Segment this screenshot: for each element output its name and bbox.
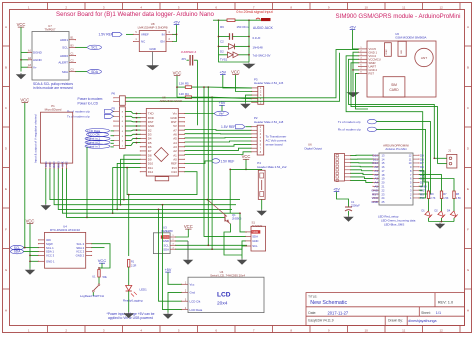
wire +5V to P3 pin1 <box>223 75 252 88</box>
svg-text:J1: J1 <box>448 148 451 152</box>
wire Q1 emitter down <box>224 224 242 255</box>
wire SDA <box>76 71 88 73</box>
svg-text:1.5K: 1.5K <box>443 197 448 200</box>
ground (BME280) <box>184 259 192 265</box>
net flag Vin* <box>185 113 215 115</box>
ground (TMP007) <box>17 73 25 79</box>
svg-text:0 to 20mA signal input: 0 to 20mA signal input <box>236 10 272 14</box>
svg-text:VCC: VCC <box>20 98 29 103</box>
svg-text:1/1: 1/1 <box>436 311 441 315</box>
wire AM2320 vdd vertical <box>240 213 247 232</box>
svg-text:P5: P5 <box>112 107 116 111</box>
wire right branch down <box>248 20 250 62</box>
resistor R7 1.5K <box>440 191 442 199</box>
svg-text:GND 1: GND 1 <box>46 260 55 264</box>
resistor R8 1.5K <box>453 191 455 199</box>
svg-text:TITLE:: TITLE: <box>308 294 317 298</box>
wire jumper right <box>194 59 198 61</box>
svg-text:LED-Blue_SMS: LED-Blue_SMS <box>384 223 404 227</box>
diode D2 1N4148 <box>229 44 235 50</box>
resistor R1 2.2R <box>128 260 130 268</box>
svg-text:ALERT: ALERT <box>58 61 68 65</box>
wire +5V to VCC5 <box>353 30 359 49</box>
net flag SDA (RTC) <box>11 249 24 254</box>
svg-text:Vin*: Vin* <box>219 112 225 116</box>
ground (C1) <box>345 216 353 222</box>
svg-text:Tx of modem o/p: Tx of modem o/p <box>338 120 361 124</box>
svg-text:Q1: Q1 <box>232 213 236 217</box>
svg-text:11: 11 <box>402 328 405 332</box>
svg-text:MISO: MISO <box>52 162 56 169</box>
svg-text:SCL: SCL <box>91 46 98 50</box>
wire bus D11 net <box>113 168 141 214</box>
svg-text:+5V: +5V <box>219 71 226 75</box>
net flag SCL <box>88 45 102 50</box>
ground (LCD) <box>164 313 172 319</box>
net flag SCL (RTC) <box>11 245 24 250</box>
wire VCC to BME <box>176 229 189 237</box>
wire modem VCCMCU <box>349 59 435 158</box>
wire bus D8 net <box>124 155 140 200</box>
svg-text:RTC-DS3231 AT24C32: RTC-DS3231 AT24C32 <box>50 228 80 232</box>
svg-text:ANT: ANT <box>421 56 427 60</box>
svg-text:P6: P6 <box>112 92 116 96</box>
svg-text:12K R4: 12K R4 <box>179 92 189 96</box>
svg-text:Power to LCD: Power to LCD <box>78 102 99 106</box>
net flag Digital in 1 <box>85 136 110 140</box>
LED LED1 <box>126 286 132 291</box>
svg-text:GND: GND <box>149 47 155 51</box>
svg-text:VCC 3: VCC 3 <box>46 254 55 258</box>
svg-text:50k: 50k <box>103 275 108 279</box>
svg-text:1.5K: 1.5K <box>456 197 461 200</box>
svg-text:TX: TX <box>420 196 424 200</box>
ground (RTC) <box>26 269 34 275</box>
svg-text:B: B <box>5 66 7 70</box>
svg-text:in this module are removed: in this module are removed <box>33 86 73 90</box>
svg-text:Input & output of V regulator: Input & output of V regulator shorted <box>34 114 38 163</box>
wires AM2320 SDA <box>204 134 246 237</box>
svg-text:D2: D2 <box>220 50 224 54</box>
wires LED resistors to ProMini <box>419 171 429 191</box>
svg-text:SIM: SIM <box>391 83 397 87</box>
svg-text:F: F <box>5 228 7 232</box>
svg-text:Header Male 2.54_2x2: Header Male 2.54_2x2 <box>257 165 287 169</box>
wire LED commons <box>429 221 455 223</box>
svg-text:B: B <box>467 66 469 70</box>
svg-text:SCK: SCK <box>60 161 64 167</box>
wire Q1 collector from rail <box>229 169 231 213</box>
wires J1 <box>434 157 447 159</box>
svg-text:VCC: VCC <box>98 258 107 263</box>
Nano polygon marker <box>154 148 168 162</box>
wire VCC stem to P4 rail <box>245 160 247 170</box>
svg-text:CARD: CARD <box>389 88 399 92</box>
svg-text:LCD Clk: LCD Clk <box>190 299 201 303</box>
svg-text:20x4: 20x4 <box>217 300 228 306</box>
svg-text:11: 11 <box>402 5 405 9</box>
svg-text:A: A <box>467 25 469 29</box>
svg-text:ARDUINO NANO: ARDUINO NANO <box>160 99 183 103</box>
svg-text:AUDIO JACK: AUDIO JACK <box>253 26 274 30</box>
ground (P4) <box>258 210 266 216</box>
svg-text:AGND: AGND <box>33 58 43 62</box>
svg-text:EasyEDA V4.11.9: EasyEDA V4.11.9 <box>308 319 333 323</box>
wire LCD Data net <box>163 205 182 310</box>
wire R4 net to P3 <box>212 97 252 99</box>
svg-text:12K R5: 12K R5 <box>179 81 189 85</box>
svg-text:+5V: +5V <box>165 268 172 272</box>
wire bus digital horizontals <box>124 199 240 201</box>
switch LogRead SWITCH <box>98 277 100 284</box>
svg-text:1.5V REF: 1.5V REF <box>99 33 113 37</box>
svg-text:DGND: DGND <box>33 51 43 55</box>
svg-text:GSM MODEM SIM900A: GSM MODEM SIM900A <box>395 35 426 39</box>
svg-text:JUMPER-3: JUMPER-3 <box>181 50 197 54</box>
wires AM2320 GND <box>242 241 246 255</box>
svg-text:SIM900 GSM/GPRS module - Ardui: SIM900 GSM/GPRS module - ArduinoProMini <box>336 13 461 20</box>
wire loop to R1 <box>128 195 130 256</box>
svg-text:LogRead SWITCH: LogRead SWITCH <box>80 294 104 298</box>
svg-text:dineshjayathunga: dineshjayathunga <box>408 319 436 323</box>
svg-text:A: A <box>5 25 7 29</box>
svg-text:R6: R6 <box>220 25 224 29</box>
svg-text:Vcc: Vcc <box>190 283 195 287</box>
svg-text:REV: 1.0: REV: 1.0 <box>438 299 454 304</box>
svg-text:VCC: VCC <box>231 70 240 75</box>
wire D13 loop under Nano <box>127 168 197 195</box>
svg-text:Header Male 2.54_1x5: Header Male 2.54_1x5 <box>254 81 284 85</box>
net flag SDA <box>88 69 102 74</box>
TVS diode TVS1 SMCJ-5V <box>228 52 239 58</box>
wire +5V to IN/EN <box>173 25 177 42</box>
svg-text:2.7K: 2.7K <box>430 197 435 200</box>
net flag LCD Data <box>86 129 110 133</box>
ground (P1) <box>42 204 50 210</box>
svg-text:Serial LCD_74HC595 20x4: Serial LCD_74HC595 20x4 <box>210 273 245 277</box>
wire modem VCC4 <box>346 56 423 187</box>
title block <box>306 293 465 326</box>
svg-text:SIM: SIM <box>401 50 403 54</box>
ground (AM2320) <box>238 259 246 265</box>
svg-text:+5V: +5V <box>333 188 340 192</box>
svg-text:Sensor Board for (B)1 Weather: Sensor Board for (B)1 Weather data logge… <box>56 11 215 18</box>
svg-text:Digital in 3: Digital in 3 <box>86 144 100 148</box>
svg-text:+5V: +5V <box>173 21 180 25</box>
wire VCC to P3 pin2 <box>236 75 252 92</box>
wire power to modem rail <box>125 50 358 98</box>
wire ProMini GND stub <box>419 189 423 191</box>
resistor R9 2.7K <box>427 191 429 199</box>
wire P4 rail <box>230 168 262 171</box>
svg-text:SDA: SDA <box>62 70 68 74</box>
svg-text:GND 2: GND 2 <box>76 254 85 258</box>
svg-text:VCC: VCC <box>17 22 26 27</box>
wire modem SIMR <box>351 63 438 164</box>
wire VCC to P1 and RTC <box>24 103 26 248</box>
wire P3 pin3 to ground <box>246 95 252 102</box>
wire input net <box>213 19 227 21</box>
wire R5 net to P3 <box>208 86 252 89</box>
net flag Digital in 2 <box>85 140 110 144</box>
wire bus D9 net <box>121 159 141 204</box>
svg-text:LCD Data: LCD Data <box>190 308 203 312</box>
wire modem GND2 <box>353 69 359 71</box>
svg-text:Rx of modem o/p: Rx of modem o/p <box>338 128 361 132</box>
svg-text:Arduino Pro Mini: Arduino Pro Mini <box>385 147 407 151</box>
wire LED cathode to ground <box>128 291 130 312</box>
wire SCL <box>76 46 88 48</box>
svg-text:RST: RST <box>369 72 375 76</box>
svg-text:MicroSDcard: MicroSDcard <box>45 107 62 111</box>
svg-text:150 Ohm: 150 Ohm <box>237 25 249 29</box>
svg-text:TVS1: TVS1 <box>220 58 228 62</box>
svg-text:TMP007: TMP007 <box>45 28 56 32</box>
ground (LM4132) <box>148 64 158 70</box>
svg-text:LM4132AMP-3.3NOPB: LM4132AMP-3.3NOPB <box>138 26 168 30</box>
wire power to LCD rail <box>125 53 339 102</box>
svg-text:10: 10 <box>365 5 369 9</box>
net flag LCD Clk <box>87 132 109 136</box>
wire BME SCL net <box>176 244 248 246</box>
svg-text:C1: C1 <box>351 200 355 204</box>
wire BME GND to ground <box>176 240 189 242</box>
svg-text:0.1UF: 0.1UF <box>253 36 261 40</box>
ground (P3) <box>242 103 250 109</box>
wire LCD Gnd <box>168 292 182 312</box>
wire Tx flag to ProMini <box>376 122 430 194</box>
svg-text:Date:: Date: <box>308 311 316 315</box>
svg-text:12: 12 <box>440 328 444 332</box>
svg-text:12: 12 <box>440 5 444 9</box>
svg-text:2200uF: 2200uF <box>351 204 360 208</box>
svg-text:CS: CS <box>65 161 69 165</box>
svg-text:SDA: SDA <box>252 235 258 239</box>
wire modem RST <box>356 73 369 109</box>
wire BME SDA net <box>176 246 248 249</box>
ground (LEDs) <box>436 223 444 229</box>
svg-text:Sheet:: Sheet: <box>421 311 431 315</box>
svg-text:Tx of modem o/p: Tx of modem o/p <box>67 115 90 119</box>
wire GND stem <box>152 52 154 64</box>
input flag (red) <box>256 18 260 19</box>
IC U7 TMP007 <box>32 32 69 81</box>
svg-text:VCC: VCC <box>242 154 251 159</box>
svg-text:SDA: SDA <box>163 247 169 251</box>
wire Q1 base net <box>86 147 88 217</box>
svg-text:Drawn By:: Drawn By: <box>388 319 403 323</box>
svg-text:VCC: VCC <box>26 218 35 223</box>
wire VCC to TMP007 pins <box>20 27 22 71</box>
svg-text:BME280: BME280 <box>162 229 173 233</box>
resistor R6 150 Ohm <box>227 19 235 22</box>
wire RTC right pins <box>92 244 110 268</box>
svg-text:SDA: SDA <box>14 250 22 254</box>
wire VCC rail <box>176 76 178 97</box>
svg-text:SDA: SDA <box>91 70 99 74</box>
wires U6 to ProMini <box>351 154 374 156</box>
svg-text:ADR1: ADR1 <box>60 38 68 42</box>
wire +5V to LCD Vcc <box>168 272 182 284</box>
svg-text:H: H <box>5 309 7 313</box>
svg-text:GND: GND <box>44 161 48 167</box>
svg-text:1N4148: 1N4148 <box>253 45 264 49</box>
svg-text:Ready/Logging: Ready/Logging <box>123 298 143 302</box>
svg-text:VCC: VCC <box>173 71 182 76</box>
svg-text:SCL: SCL <box>62 46 68 50</box>
svg-text:GND: GND <box>252 239 258 243</box>
svg-text:sense board: sense board <box>266 143 283 147</box>
svg-text:E: E <box>5 187 7 191</box>
svg-text:Header Male 2.54_1x8: Header Male 2.54_1x8 <box>254 120 284 124</box>
svg-text:7x5-SMCJ-5V: 7x5-SMCJ-5V <box>253 53 271 57</box>
svg-text:ADR0: ADR0 <box>60 54 68 58</box>
svg-text:VDD: VDD <box>252 230 258 234</box>
svg-text:F: F <box>467 228 469 232</box>
Nano usb rect <box>155 177 169 181</box>
svg-text:1.5V REF: 1.5V REF <box>221 159 235 163</box>
wire jumper left <box>187 59 189 61</box>
svg-text:+5V: +5V <box>349 26 356 30</box>
svg-text:H: H <box>467 309 469 313</box>
svg-text:IN: IN <box>162 33 165 37</box>
svg-text:10: 10 <box>365 328 369 332</box>
svg-text:LED1: LED1 <box>140 287 148 291</box>
svg-text:EN: EN <box>160 40 164 44</box>
wire R1 to LED <box>128 267 130 286</box>
svg-text:VCC: VCC <box>48 161 52 167</box>
svg-text:LCD: LCD <box>217 292 231 299</box>
svg-text:E: E <box>467 187 469 191</box>
svg-text:VREF: VREF <box>141 33 149 37</box>
ground (input cluster) <box>244 63 254 69</box>
svg-text:GND: GND <box>371 200 379 204</box>
wire +5V to C1 rail <box>337 192 349 207</box>
net flag Digital in 3 <box>85 144 110 148</box>
wires Nano A pins to P2 <box>185 129 252 132</box>
svg-text:1.5V REF: 1.5V REF <box>221 125 235 129</box>
wire R6 to flag <box>235 19 261 21</box>
svg-text:D13: D13 <box>171 170 177 174</box>
svg-text:Gnd: Gnd <box>190 291 196 295</box>
net flag 1.5V REF (lower) <box>185 161 213 164</box>
svg-text:MOSI: MOSI <box>56 161 60 168</box>
svg-text:JP1: JP1 <box>181 57 186 61</box>
wire LCD Clk net <box>159 209 182 301</box>
svg-text:V+: V+ <box>33 65 37 69</box>
svg-text:Digital Output: Digital Output <box>305 147 323 151</box>
svg-text:GSM: GSM <box>386 49 388 54</box>
svg-text:2N3906: 2N3906 <box>232 217 242 221</box>
svg-text:Power to modem: Power to modem <box>78 97 103 101</box>
wire P4 to ground <box>261 199 263 209</box>
capacitor C2 0.1UF <box>229 33 231 40</box>
svg-text:C2: C2 <box>220 40 224 44</box>
svg-text:+5V: +5V <box>219 101 226 105</box>
wire P1 GND down <box>45 169 47 204</box>
wire modem GND1 <box>353 52 359 91</box>
wires P5 to Nano pins <box>125 111 140 113</box>
wire I2C net verticals <box>197 60 199 125</box>
wires AM2320 SCL vertical <box>207 138 209 245</box>
transistor Q1 2N3906 <box>224 215 226 222</box>
svg-text:New Schematic: New Schematic <box>310 300 347 306</box>
ground (modem) <box>348 91 358 97</box>
svg-text:Rx of modem o/p: Rx of modem o/p <box>67 110 90 114</box>
ground (LED1) <box>125 312 133 318</box>
wire left branch down <box>219 20 250 62</box>
svg-text:VCC: VCC <box>184 224 193 229</box>
svg-text:2017-11-27: 2017-11-27 <box>328 310 349 315</box>
wires P1 pins to horizontal bus <box>50 169 124 200</box>
svg-text:SCL: SCL <box>252 244 258 248</box>
IC U8 LM4132AMP-3.3NOPB <box>139 31 166 52</box>
svg-text:applied to Vin or USB powered: applied to Vin or USB powered <box>108 316 153 320</box>
wire bus D10 net <box>117 163 140 209</box>
wire VCC RTC down <box>29 224 31 269</box>
wire REF to VREF <box>126 33 134 35</box>
svg-text:NC: NC <box>141 40 145 44</box>
svg-text:2.2R: 2.2R <box>131 264 136 267</box>
svg-text:D12: D12 <box>148 170 154 174</box>
wire Rx flag to ProMini <box>376 129 425 198</box>
